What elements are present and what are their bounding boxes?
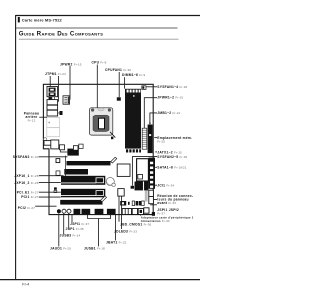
svg-text:JATX1~2 Fr-15: JATX1~2 Fr-15 bbox=[157, 150, 182, 154]
svg-text:PCI1 Fr-27: PCI1 Fr-27 bbox=[21, 195, 38, 199]
svg-text:JDLED3 Fr-23: JDLED3 Fr-23 bbox=[114, 230, 137, 234]
svg-text:Guide Rapide Des Composants: Guide Rapide Des Composants bbox=[19, 31, 103, 38]
svg-text:JBAT1 Fr-22: JBAT1 Fr-22 bbox=[106, 241, 127, 245]
svg-text:JXP16_2 Fr-26: JXP16_2 Fr-26 bbox=[14, 181, 38, 185]
svg-text:Fr-4: Fr-4 bbox=[22, 282, 29, 286]
svg-text:CPUFAN1 Fr-30: CPUFAN1 Fr-30 bbox=[105, 68, 131, 72]
svg-text:JBP1 Fr-35: JBP1 Fr-35 bbox=[66, 227, 84, 231]
svg-text:DIMM1~6 Fr-9: DIMM1~6 Fr-9 bbox=[122, 73, 146, 77]
svg-text:JUSB3 Fr-14: JUSB3 Fr-14 bbox=[60, 234, 81, 238]
svg-text:Fr-25: Fr-25 bbox=[157, 140, 165, 144]
svg-text:JPWR2 Fr-15: JPWR2 Fr-15 bbox=[60, 62, 82, 66]
svg-text:JCI1 Fr-34: JCI1 Fr-34 bbox=[157, 184, 174, 188]
svg-text:JAUD1 Fr-20: JAUD1 Fr-20 bbox=[50, 246, 71, 250]
svg-text:JBD_CMOS1 Fr-36: JBD_CMOS1 Fr-36 bbox=[120, 222, 152, 226]
svg-text:JMB1~2 Fr-21: JMB1~2 Fr-21 bbox=[157, 111, 180, 115]
svg-text:SYSFAN3 Fr-30: SYSFAN3 Fr-30 bbox=[13, 155, 39, 159]
svg-text:Carte mère MS-7522: Carte mère MS-7522 bbox=[22, 18, 63, 23]
svg-text:JPWR1~2 Fr-15: JPWR1~2 Fr-15 bbox=[157, 96, 183, 100]
svg-text:Fr-12: Fr-12 bbox=[28, 119, 36, 123]
svg-text:JXP16_1 Fr-26: JXP16_1 Fr-26 bbox=[14, 174, 38, 178]
svg-text:PCI_E1 Fr-27: PCI_E1 Fr-27 bbox=[17, 190, 39, 194]
svg-text:CPU Fr-8: CPU Fr-8 bbox=[92, 61, 107, 65]
svg-text:JTPM1 Fr-24: JTPM1 Fr-24 bbox=[45, 72, 66, 76]
svg-text:JUSB1 Fr-18: JUSB1 Fr-18 bbox=[84, 246, 105, 250]
svg-text:PCI2 Fr-27: PCI2 Fr-27 bbox=[18, 206, 35, 210]
svg-text:SYSFAN1~4 Fr-30: SYSFAN1~4 Fr-30 bbox=[157, 85, 187, 89]
svg-text:SATA1~6 Fr-19/21: SATA1~6 Fr-19/21 bbox=[157, 165, 187, 169]
svg-text:SYSFAN2~5 Fr-30: SYSFAN2~5 Fr-30 bbox=[157, 155, 187, 159]
svg-text:JSPI1 Fr-37: JSPI1 Fr-37 bbox=[70, 222, 89, 226]
svg-text:avant Fr-33: avant Fr-33 bbox=[157, 201, 176, 205]
